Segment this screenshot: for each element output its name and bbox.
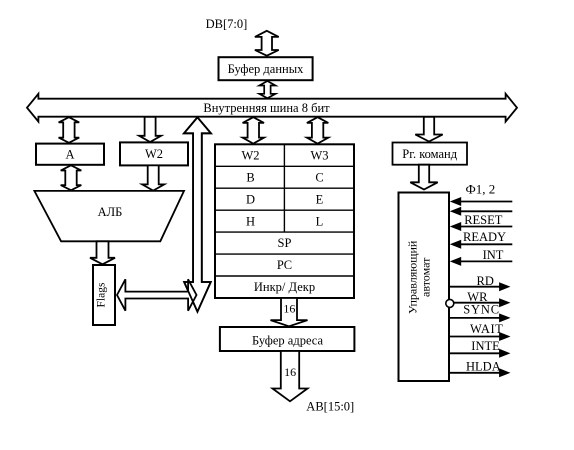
svg-text:автомат: автомат [419,257,433,297]
block: Управляющий автомат (control unit) [399,193,450,382]
svg-text:W3: W3 [310,148,328,162]
svg-text:C: C [315,170,323,184]
svg-text:INT: INT [483,248,504,262]
wire: arrow bus to W2 register [139,117,161,142]
svg-text:INTE: INTE [471,339,500,353]
node: open circle on control unit edge [446,299,454,307]
signal wire READY (input) [450,240,513,249]
svg-text:16: 16 [284,365,296,379]
svg-text:D: D [246,192,255,206]
signal INTE label [471,339,500,353]
svg-text:SP: SP [278,236,292,250]
node DB[7:0] label [206,17,248,31]
svg-text:SYNC: SYNC [463,302,500,316]
wire: double arrow bus to register file (right) [307,117,328,143]
svg-text:W2: W2 [241,148,259,162]
wire: arrow bus to instruction register [415,117,442,142]
signal READY label [463,230,506,244]
wire: arrow ALU to Flags [90,241,115,264]
signal wire RD (output) [449,282,511,291]
svg-text:H: H [246,214,255,228]
svg-text:RESET: RESET [464,213,503,227]
block: register W2 (left) [120,142,188,165]
signal wire HLDA (output) [449,368,511,377]
signal wire Ф2 (input) [450,207,513,216]
block: Буфер данных (data buffer) [219,57,313,80]
svg-text:16: 16 [283,301,295,315]
svg-text:E: E [316,192,324,206]
wire: arrow register file to address buffer, width 16 [271,298,308,326]
wire: double arrow A to ALU [61,165,82,190]
svg-text:HLDA: HLDA [466,360,501,374]
signal RESET label [464,213,503,227]
wire: horizontal double arrow Flags to bus trunk [117,279,197,310]
svg-text:Ф1, 2: Ф1, 2 [466,181,496,196]
svg-text:A: A [65,147,74,161]
signal wire SYNC (output) [449,313,511,322]
svg-text:Flags: Flags [96,282,108,307]
signal wire WR (output) [449,298,511,307]
wire: double arrow DB to data buffer [255,31,279,56]
bus: Внутренняя шина 8 бит (internal 8-bit bus) [27,94,517,122]
wire: arrow address buffer to AB, width 16 [273,351,308,401]
svg-text:PC: PC [277,258,292,272]
signal WAIT label [470,322,503,336]
signal WR label [467,290,488,304]
svg-text:READY: READY [463,230,506,244]
signal wire INTE (output) [449,349,511,358]
signal Ф1, 2 label [466,181,496,196]
svg-text:DB[7:0]: DB[7:0] [206,17,248,31]
svg-text:WAIT: WAIT [470,322,503,336]
svg-text:Управляющий: Управляющий [406,240,420,314]
signal wire WAIT (output) [449,332,511,341]
wire: double arrow data buffer to internal bus [259,81,275,98]
svg-text:B: B [246,170,254,184]
svg-text:Рг. команд: Рг. команд [402,147,457,161]
signal wire Ф1 (input) [450,197,513,206]
wire: arrow instruction register to control unit [410,165,437,190]
block: Flags register [93,265,115,325]
wire: tall vertical double arrow bus to register-block level [184,117,211,311]
signal SYNC label [463,302,500,316]
svg-text:Внутренняя шина 8 бит: Внутренняя шина 8 бит [203,101,330,115]
signal HLDA label [466,360,501,374]
svg-text:АЛБ: АЛБ [98,205,123,219]
block: Рг. команд (instruction register) [393,143,468,165]
wire: tall vertical double arrow outline (overlap redraw) [184,117,211,311]
svg-text:W2: W2 [145,147,163,161]
block: register file [215,144,354,298]
signal RD label [477,274,494,288]
svg-text:AB[15:0]: AB[15:0] [306,399,354,413]
wire: arrow W2 to ALU [142,165,164,190]
wire: double arrow bus to register file (left) [243,117,264,143]
block: Буфер адреса (address buffer) [220,327,355,351]
wire: double arrow bus to A register [59,117,80,143]
signal wire INT (input) [450,257,513,266]
svg-text:L: L [316,214,324,228]
block: АЛБ (ALU) trapezoid [34,191,184,241]
signal INT label [483,248,504,262]
signal wire RESET (input) [450,222,513,231]
svg-text:Инкр/ Декр: Инкр/ Декр [254,280,315,294]
svg-text:Буфер данных: Буфер данных [228,62,305,76]
block: register A [36,144,104,165]
svg-text:Буфер адреса: Буфер адреса [252,334,324,348]
node AB[15:0] label [306,399,354,413]
